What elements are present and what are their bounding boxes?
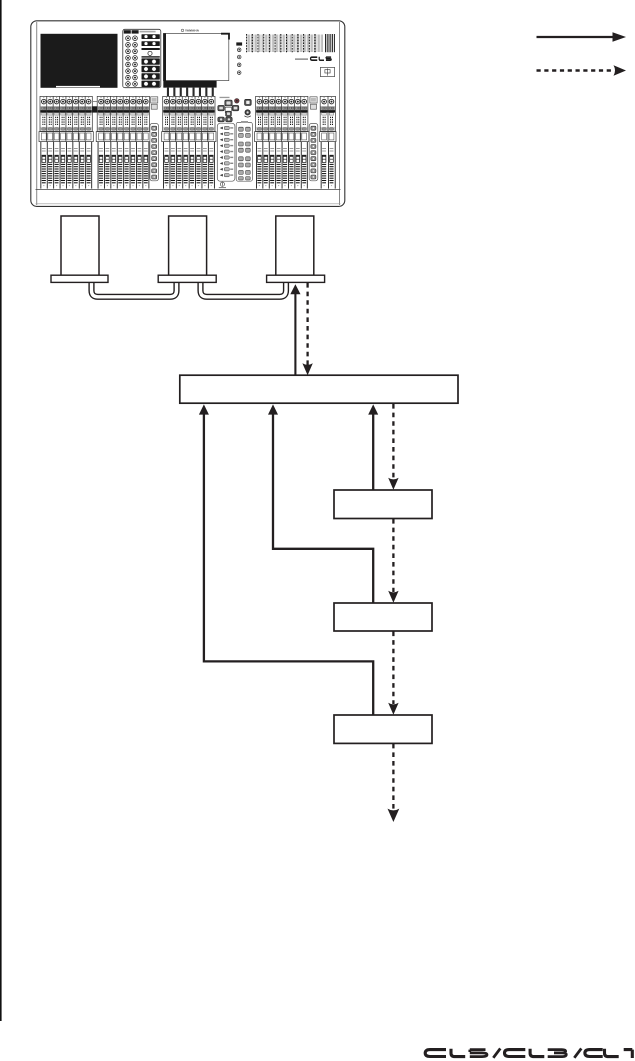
user defined button grid panel <box>236 121 252 181</box>
channel strip group 1 <box>39 96 93 188</box>
channel strip group 4 <box>255 96 309 188</box>
master strips <box>320 96 336 188</box>
yamaha logo above touchscreen <box>181 29 200 33</box>
dashed wire device2 to device3 <box>388 632 398 715</box>
centralogic navigation cluster <box>218 97 251 123</box>
cable between unit1 and unit2 <box>92 281 177 297</box>
ribbon strips below touchscreen <box>167 88 214 97</box>
io rack long box <box>180 375 458 403</box>
dashed arrow from console connector down to io box <box>302 283 312 375</box>
page left border <box>0 0 2 1021</box>
legend dashed arrow <box>537 65 627 75</box>
st-in column left <box>150 97 159 181</box>
console meter display (black screen) <box>41 34 118 88</box>
legend solid arrow <box>537 32 627 42</box>
device box 3 <box>334 715 432 743</box>
touchscreen <box>163 33 229 87</box>
solid arrow from io box up to console connector <box>290 284 300 375</box>
selected channel panel <box>123 29 161 87</box>
solid wire from device1 up to io rack <box>368 404 378 490</box>
dashed wire io rack to device1 <box>388 404 398 490</box>
solid wire from device3 up to io rack <box>199 404 373 715</box>
device box 2 <box>334 603 432 631</box>
connector unit 1 <box>51 216 108 282</box>
solid wire from device2 up to io rack <box>268 404 373 603</box>
st-in column right <box>309 97 318 181</box>
device box 1 <box>334 490 432 519</box>
CL5 logo on console <box>295 57 331 61</box>
link connector between groups <box>92 106 97 112</box>
monitor knob column <box>236 42 242 74</box>
mixing console CL5 body <box>31 21 345 207</box>
dashed wire out of device3 <box>388 744 400 822</box>
CL5/CL3/CL1 footer logo <box>425 1048 632 1058</box>
cable between unit2 and unit3 <box>201 281 287 297</box>
connector unit 2 <box>158 216 216 282</box>
meter bridge display <box>246 34 336 53</box>
yamaha emblem bottom center <box>219 182 226 188</box>
channel strip group 3 <box>162 96 216 188</box>
connector unit 3 <box>267 216 325 282</box>
dashed wire device1 to device2 <box>388 519 398 603</box>
channel strip group 2 <box>96 96 150 188</box>
bank select panel <box>217 123 235 181</box>
svg-text:YAMAHA: YAMAHA <box>185 29 200 33</box>
sends-on-fader icon box <box>320 67 334 76</box>
